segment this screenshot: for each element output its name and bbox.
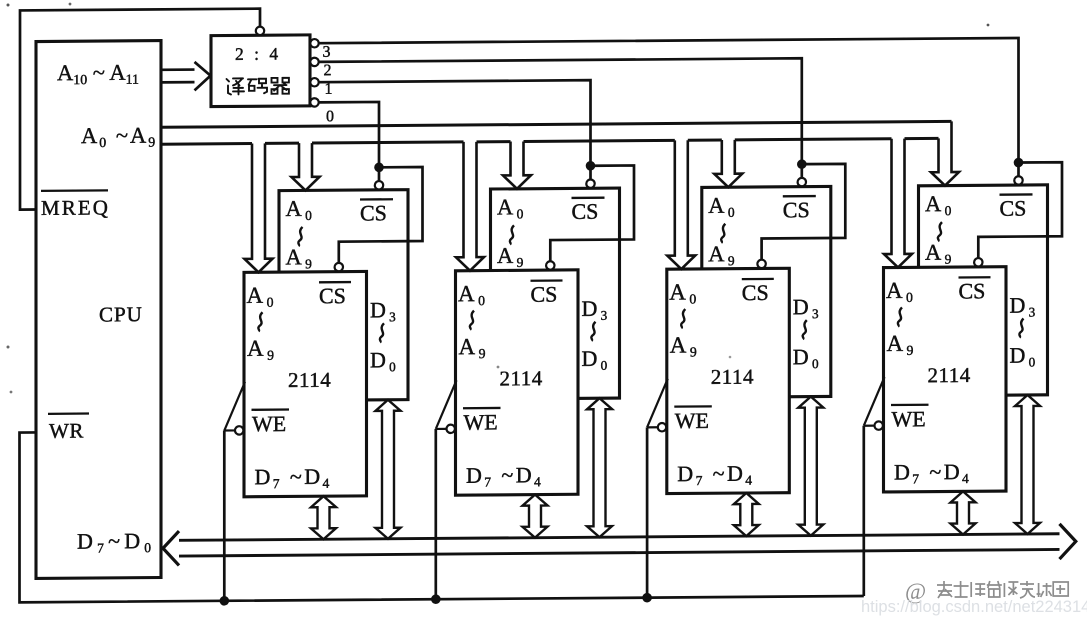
svg-text:D7 ~D4: D7 ~D4 [255, 464, 332, 492]
2114 low-nibble chip (front) bank 3 [667, 268, 790, 493]
address bus branch arrow into front chip bank 2 [456, 142, 484, 271]
svg-text:2 : 4: 2 : 4 [235, 44, 281, 64]
svg-text:2114: 2114 [288, 368, 331, 392]
front chip CS bubble bank 2 [546, 261, 554, 269]
scan dust specks (decorative) [7, 4, 10, 7]
svg-text:2: 2 [324, 62, 332, 79]
CPU U1 box [36, 41, 161, 579]
wire decoder output 0 to bank 1 select [319, 102, 379, 168]
data arrow front chip D7~D4 to bus bank 3 [734, 493, 759, 536]
back chip bank 4 D3..D0 squiggle [1019, 319, 1023, 338]
wire decoder output 3 to bank 4 select [319, 38, 1019, 168]
wire WE bubble to vertical bank 3 [647, 426, 658, 428]
svg-text:WE: WE [892, 406, 926, 431]
WR line junction dot bank 3 [642, 593, 652, 603]
front chip bank 3 CS overline [742, 278, 774, 281]
MREQ overline [41, 189, 108, 192]
data arrow front chip D7~D4 to bus bank 1 [311, 496, 336, 539]
address bus branch arrow into front chip bank 4 [884, 139, 912, 268]
svg-text:3: 3 [323, 44, 331, 61]
data arrow back chip D3~D0 to bus bank 4 [1015, 395, 1040, 534]
front chip bank 1 A0..A9 squiggle [258, 312, 262, 331]
wire back chip WE (diagonal from behind front chip) bank 3 [647, 379, 668, 428]
decoder U2 (2:4) box [211, 35, 310, 107]
front chip bank 4 CS overline [959, 276, 991, 279]
wire WE vertical to WR line bank 1 [223, 431, 226, 601]
WR line junction dot bank 2 [431, 594, 441, 604]
back chip CS bubble bank 1 [375, 181, 383, 189]
decoder output bubble 3 [310, 39, 318, 47]
address bus branch arrow into front chip bank 1 [245, 143, 273, 272]
data arrow front chip D7~D4 to bus bank 4 [951, 491, 976, 534]
data arrow back chip D3~D0 to bus bank 1 [376, 400, 401, 539]
svg-text:CS: CS [572, 199, 599, 224]
data bus left arrowhead into CPU [163, 531, 179, 566]
front chip bank 1 CS overline [319, 281, 351, 284]
front chip bank 4 A0..A9 squiggle [898, 307, 902, 326]
data bus right arrowhead [1060, 524, 1076, 559]
watermark @稀土掘金技术社区 (decorative) [905, 579, 1068, 604]
decoder output bubble 0 [310, 98, 318, 106]
front chip bank 4 WE overline [891, 404, 929, 407]
data bus D7~D0 top line [179, 534, 1060, 541]
svg-text:D7 ~D4: D7 ~D4 [894, 459, 971, 487]
svg-text:CS: CS [783, 197, 810, 222]
wire select to front chip CS bank 1 [339, 167, 423, 264]
wire back chip WE (diagonal from behind front chip) bank 2 [436, 380, 457, 429]
back chip bank 3 CS overline [783, 195, 816, 198]
svg-text:WE: WE [252, 411, 286, 436]
wire back chip WE (diagonal from behind front chip) bank 1 [224, 382, 245, 431]
back chip bank 2 CS overline [572, 197, 605, 200]
front chip WE bubble bank 3 [658, 423, 666, 431]
data bus D7~D0 bottom line [179, 549, 1060, 556]
back chip CS bubble bank 3 [798, 178, 806, 186]
svg-text:CS: CS [959, 278, 986, 303]
2114 high-nibble chip (back) bank 1 [279, 190, 408, 401]
wire select to back chip CS bank 4 [1017, 163, 1020, 178]
svg-text:WE: WE [464, 409, 498, 434]
svg-text:A0 ~A9: A0 ~A9 [81, 123, 157, 152]
WR line junction dot bank 1 [220, 596, 230, 606]
svg-text:WE: WE [675, 408, 709, 433]
svg-text:CPU: CPU [99, 302, 143, 326]
svg-text:D7 ~D4: D7 ~D4 [677, 461, 754, 489]
wire WE vertical to WR line bank 4 [862, 426, 865, 596]
decoder enable bubble (G, from MREQ) [256, 27, 264, 35]
back chip bank 1 CS overline [360, 198, 393, 201]
wire WE vertical to WR line bank 3 [646, 427, 649, 597]
svg-text:2114: 2114 [500, 366, 543, 390]
svg-text:D7 ~D4: D7 ~D4 [466, 462, 543, 490]
svg-text:CS: CS [360, 200, 387, 225]
wire decoder output 2 to bank 3 select [319, 58, 802, 168]
select junction dot bank 2 [586, 161, 596, 171]
2114 low-nibble chip (front) bank 1 [244, 271, 367, 496]
wire select to back chip CS bank 2 [589, 166, 592, 181]
front chip WE bubble bank 1 [235, 426, 243, 434]
wire MREQ from CPU left to decoder enable [20, 9, 260, 210]
svg-text:CS: CS [319, 283, 346, 308]
front chip bank 3 A0..A9 squiggle [681, 309, 685, 328]
data arrow back chip D3~D0 to bus bank 2 [587, 398, 612, 537]
svg-text:2114: 2114 [711, 365, 754, 389]
svg-text:WR: WR [49, 419, 84, 443]
back chip bank 2 D3..D0 squiggle [591, 322, 595, 341]
svg-text:CS: CS [1000, 196, 1027, 221]
2114 high-nibble chip (back) bank 3 [702, 186, 831, 397]
address bus branch arrow into back chip bank 3 [714, 140, 742, 188]
WR overline [48, 412, 89, 415]
front chip CS bubble bank 3 [757, 260, 765, 268]
wire WE bubble to vertical bank 1 [224, 429, 235, 431]
svg-text:D7~D0: D7~D0 [77, 528, 155, 556]
back chip bank 1 A0..A9 squiggle [298, 227, 302, 246]
front chip bank 3 WE overline [674, 405, 712, 408]
wire select to front chip CS bank 3 [762, 164, 846, 261]
svg-text:MREQ: MREQ [41, 195, 110, 220]
wire select to back chip CS bank 1 [378, 167, 381, 182]
decoder label 译码器 (drawn strokes) [227, 78, 289, 95]
address bus A0~A9 top line [161, 121, 952, 127]
back chip bank 3 D3..D0 squiggle [803, 320, 807, 339]
wire select to front chip CS bank 4 [978, 162, 1062, 259]
wire select to back chip CS bank 3 [800, 164, 803, 179]
back chip bank 1 D3..D0 squiggle [380, 323, 384, 342]
front chip CS bubble bank 4 [974, 258, 982, 266]
front chip bank 2 WE overline [463, 407, 501, 410]
data arrow front chip D7~D4 to bus bank 2 [523, 494, 548, 537]
front chip bank 2 A0..A9 squiggle [470, 311, 474, 330]
wire select to front chip CS bank 2 [550, 165, 634, 262]
wire back chip WE (diagonal from behind front chip) bank 4 [864, 377, 885, 426]
svg-text:0: 0 [326, 108, 334, 125]
select junction dot bank 4 [1014, 158, 1024, 168]
address bus branch arrow into back chip bank 2 [503, 141, 531, 189]
wire WE bubble to vertical bank 4 [864, 425, 875, 427]
select junction dot bank 3 [797, 159, 807, 169]
2114 low-nibble chip (front) bank 2 [456, 270, 579, 495]
svg-text:htips://blog.csdn.net/net22431: htips://blog.csdn.net/net22431456 [861, 598, 1087, 616]
decoder output bubble 2 [310, 58, 318, 66]
address bus branch arrow into front chip bank 3 [667, 140, 695, 269]
2114 high-nibble chip (back) bank 2 [491, 188, 620, 399]
front chip WE bubble bank 4 [875, 421, 883, 429]
wire WE vertical to WR line bank 2 [434, 429, 437, 599]
svg-text:2114: 2114 [928, 363, 971, 387]
2114 low-nibble chip (front) bank 4 [884, 267, 1007, 492]
front chip bank 1 WE overline [252, 408, 290, 411]
address bus branch arrow into back chip bank 1 [292, 143, 320, 191]
wire WE bubble to vertical bank 2 [436, 428, 447, 430]
svg-text:CS: CS [531, 282, 558, 307]
data arrow back chip D3~D0 to bus bank 3 [798, 397, 823, 536]
svg-text:CS: CS [742, 280, 769, 305]
address bus branch arrow into back chip bank 4 [931, 121, 959, 185]
back chip CS bubble bank 2 [586, 179, 594, 187]
back chip bank 4 CS overline [1000, 193, 1033, 196]
2114 high-nibble chip (back) bank 4 [919, 185, 1048, 396]
back chip bank 3 A0..A9 squiggle [721, 224, 725, 243]
front chip WE bubble bank 2 [447, 425, 455, 433]
back chip bank 4 A0..A9 squiggle [938, 222, 942, 241]
decoder output bubble 1 [310, 78, 318, 86]
wire WR from CPU left edge down and across [20, 426, 864, 602]
front chip bank 2 CS overline [531, 279, 563, 282]
back chip CS bubble bank 4 [1014, 176, 1022, 184]
address bus A0~A9 bottom line segments [161, 142, 252, 146]
front chip CS bubble bank 1 [335, 263, 343, 271]
back chip bank 2 A0..A9 squiggle [510, 225, 514, 244]
select junction dot bank 1 [374, 163, 384, 173]
wire decoder output 1 to bank 2 select [319, 80, 591, 168]
bus arrow A10~A11 from CPU to decoder [161, 62, 211, 91]
